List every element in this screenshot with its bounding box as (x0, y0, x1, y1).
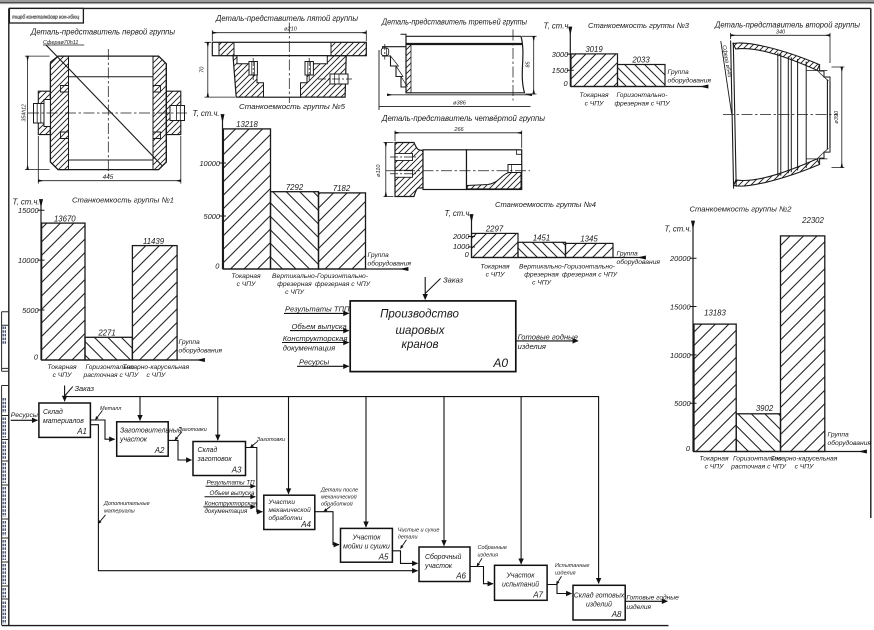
chart1 axes (40, 200, 42, 361)
svg-text:мойки и сушки: мойки и сушки (343, 543, 390, 551)
svg-text:ø386: ø386 (453, 100, 467, 106)
wire: А3 to А4 (Заготовки) (246, 448, 263, 512)
svg-text:Участки: Участки (268, 499, 296, 506)
svg-text:оборудования: оборудования (368, 259, 412, 267)
part3 left hatched band (406, 44, 411, 93)
part4 right section (467, 150, 522, 190)
part1 dimension 445 (38, 136, 181, 184)
chart3 bar 3019 Токарная с ЧПУ (571, 54, 618, 87)
svg-text:2271: 2271 (97, 329, 115, 338)
svg-text:13183: 13183 (704, 308, 726, 317)
svg-text:Группа: Группа (828, 431, 850, 438)
part5 bolt right (305, 62, 313, 76)
svg-text:изделия: изделия (555, 570, 576, 576)
svg-text:фрезерная с ЧПУ: фрезерная с ЧПУ (315, 281, 371, 288)
chart4 tick labels (452, 232, 470, 259)
chart4 x-axis category labels (480, 263, 617, 286)
part4 shaft (423, 150, 467, 190)
part3 dimension ø386 (387, 94, 532, 96)
part1 left flange (hatched) (38, 91, 50, 134)
part1 right bolt (170, 106, 185, 121)
svg-text:Результаты ТПП: Результаты ТПП (285, 305, 350, 314)
box А8: Склад готовых изделий (573, 585, 625, 620)
svg-text:А4: А4 (300, 520, 311, 529)
svg-text:340: 340 (776, 29, 786, 35)
chart5 axes (222, 115, 224, 270)
svg-text:заготовок: заготовок (197, 456, 233, 463)
left margin tiny vertical text marks (3, 327, 5, 625)
svg-text:5000: 5000 (22, 306, 39, 315)
chart5 x-axis category labels (231, 273, 370, 296)
box А4: Участки механической обработки (264, 495, 315, 529)
svg-text:Т, ст.ч.: Т, ст.ч. (665, 224, 692, 233)
svg-text:Склад готовых: Склад готовых (574, 591, 625, 599)
corner stamp box (9, 8, 83, 23)
svg-text:Готовые годные: Готовые годные (518, 332, 578, 341)
chart3 bar 2033 Горизонтально-фрезерная с ЧПУ (618, 65, 666, 87)
svg-text:20000: 20000 (669, 254, 691, 263)
svg-text:Станкоемкость группы №1: Станкоемкость группы №1 (72, 195, 174, 204)
svg-text:Токарная: Токарная (579, 92, 609, 99)
svg-text:Заказ: Заказ (443, 276, 464, 285)
part1 inner cavity lines (69, 77, 154, 160)
wire: drop into А7 (520, 397, 522, 564)
svg-text:Ресурсы: Ресурсы (299, 358, 330, 367)
chart4 bar 1345 Горизонтально-фрезерная с ЧПУ (566, 243, 614, 257)
svg-text:фрезерная: фрезерная (524, 271, 559, 278)
wire: Объем выпуска into А4 bundle (205, 496, 256, 498)
svg-text:Объем выпуска: Объем выпуска (210, 490, 256, 497)
svg-text:10000: 10000 (18, 256, 39, 265)
part3 left bolt (381, 48, 388, 56)
svg-text:70: 70 (199, 66, 205, 73)
part1 small top tabs (61, 86, 69, 139)
svg-text:с ЧПУ: с ЧПУ (486, 271, 506, 278)
svg-text:13218: 13218 (236, 120, 258, 129)
svg-text:Ресурсы: Ресурсы (11, 412, 38, 419)
svg-text:изделия: изделия (478, 552, 499, 558)
part5 body (hatched trapezoid) (233, 56, 346, 97)
svg-text:Участок: Участок (352, 535, 382, 542)
svg-text:тшрб конеталкйовр кон-хбюц: тшрб конеталкйовр кон-хбюц (13, 14, 81, 21)
svg-text:Заказ: Заказ (75, 384, 95, 393)
wire: А8 output Готовые годные изделия (625, 600, 667, 602)
svg-text:А6: А6 (455, 571, 466, 580)
svg-text:Т, ст.ч.: Т, ст.ч. (193, 109, 220, 118)
A0 input arrow: Результаты ТПП (284, 312, 349, 314)
A0 control arrow: Заказ (424, 277, 426, 299)
svg-text:Готовые годные: Готовые годные (626, 594, 679, 602)
part2 sphere leader line (721, 41, 732, 113)
part2 right top steps (820, 65, 830, 81)
svg-text:445: 445 (103, 174, 114, 181)
svg-text:15000: 15000 (18, 206, 39, 215)
svg-text:оборудования: оборудования (668, 77, 712, 85)
part2 dimension 340 (731, 33, 830, 63)
svg-text:механической: механической (321, 494, 357, 501)
wire: drop into А2 (139, 397, 141, 421)
svg-text:с ЧПУ: с ЧПУ (146, 372, 166, 379)
part4 dimension 266 (395, 131, 522, 149)
A0 output arrow: Готовые годные изделия (516, 340, 578, 342)
svg-text:с ЧПУ: с ЧПУ (795, 464, 815, 471)
box А5: Участок мойки и сушки (341, 528, 393, 562)
svg-text:15000: 15000 (670, 302, 691, 311)
part1 right flange (hatched) (166, 91, 181, 134)
svg-text:расточная с ЧПУ: расточная с ЧПУ (82, 372, 139, 379)
svg-text:Деталь-представитель первой гр: Деталь-представитель первой группы (30, 28, 175, 37)
svg-text:изделия: изделия (626, 603, 651, 611)
part1 centerlines (28, 49, 188, 177)
svg-text:10000: 10000 (670, 351, 691, 360)
svg-text:детали: детали (398, 535, 418, 541)
part2 left face double line (731, 41, 737, 189)
part4 flange white slots (395, 154, 413, 161)
chart5 bar 7292 Вертикально-фрезерная с ЧПУ (271, 192, 319, 269)
svg-text:10000: 10000 (199, 159, 220, 168)
part5 centerlines (253, 23, 352, 104)
svg-text:3019: 3019 (585, 45, 603, 54)
chart4 bar 2297 Токарная с ЧПУ (472, 233, 519, 257)
svg-text:Испытанные: Испытанные (555, 563, 590, 569)
svg-text:354h12: 354h12 (21, 104, 27, 121)
left margin column boxes (lower group) (2, 386, 9, 626)
wire: drop into А5 (365, 397, 367, 527)
svg-text:документация: документация (205, 508, 248, 515)
wire: А5 to А6 (Чистые и сухие детали) (392, 551, 417, 564)
A0 input arrow: Ресурсы (297, 365, 349, 367)
svg-text:Детали после: Детали после (320, 488, 358, 494)
svg-text:Склад: Склад (198, 446, 218, 454)
part3 tube body (406, 36, 525, 93)
box А2: Заготовительный участок (117, 422, 169, 456)
svg-text:Т, ст.ч.: Т, ст.ч. (544, 22, 571, 31)
svg-text:расточная с ЧПУ: расточная с ЧПУ (730, 464, 787, 471)
svg-text:оборудования: оборудования (828, 439, 872, 447)
svg-text:ø210: ø210 (284, 26, 298, 32)
svg-text:Деталь-представитель четвёртой: Деталь-представитель четвёртой группы (381, 114, 545, 123)
svg-text:Заготовки: Заготовки (179, 427, 207, 433)
chart2 tick labels (669, 254, 691, 453)
svg-text:Дополнительные: Дополнительные (103, 501, 150, 507)
svg-text:испытаний: испытаний (502, 580, 539, 588)
svg-text:Деталь-представитель третьей г: Деталь-представитель третьей группы (381, 17, 527, 26)
chart1 bar 2271 Горизонтально-расточная с ЧПУ (85, 337, 132, 360)
part4 right bolt (508, 165, 522, 173)
svg-text:с ЧПУ: с ЧПУ (285, 289, 305, 296)
svg-text:А5: А5 (378, 552, 389, 561)
box А3: Склад заготовок (193, 442, 246, 476)
svg-text:Деталь-представитель пятой гру: Деталь-представитель пятой группы (215, 14, 358, 23)
A0 input arrow: Конструкторская документация (282, 342, 349, 344)
svg-text:13670: 13670 (54, 214, 76, 223)
part5 bolt left (249, 62, 257, 76)
chart4 axes (471, 215, 473, 258)
svg-text:3000: 3000 (552, 50, 569, 59)
chart2 bar 3902 Горизонтально-расточная с ЧПУ (736, 414, 780, 452)
svg-text:обработкой: обработкой (321, 501, 353, 508)
wire: drop into А3 (217, 397, 219, 441)
svg-text:кранов: кранов (402, 339, 439, 351)
svg-text:ø110: ø110 (376, 164, 382, 177)
svg-text:механической: механической (269, 506, 312, 514)
svg-text:1345: 1345 (580, 235, 598, 244)
part1 sphere diagonal (46, 45, 162, 166)
wire: А2 to А3 (Заготовки) (168, 440, 191, 460)
part2 bottom hatched band (734, 159, 820, 186)
svg-text:1500: 1500 (552, 66, 569, 75)
chart2 axes (692, 221, 694, 452)
A0 input arrow: Объем выпуска (290, 330, 349, 332)
box А7: Участок испытаний (495, 565, 548, 600)
wire: А1 to А2 (Металл) (90, 420, 114, 439)
svg-text:Станкоемкость группы №4: Станкоемкость группы №4 (495, 200, 596, 209)
svg-text:5000: 5000 (204, 212, 221, 221)
wire: А7 to А8 (Испытанные изделия) (547, 585, 571, 594)
svg-text:Станкоемкость группы №5: Станкоемкость группы №5 (239, 102, 346, 111)
wire: drop into А6 (443, 397, 445, 546)
svg-text:5000: 5000 (674, 399, 691, 408)
svg-text:Конструкторская: Конструкторская (283, 334, 348, 343)
svg-text:Т, ст.ч.: Т, ст.ч. (445, 209, 472, 218)
wire: Ресурсы into А1 (11, 419, 38, 421)
chart2 bar 22302 Токарно-карусельная с ЧПУ (781, 236, 825, 452)
svg-text:Чистые и сухие: Чистые и сухие (398, 528, 440, 534)
part4 dimension ø110 (384, 143, 394, 197)
svg-text:Участок: Участок (506, 572, 536, 579)
svg-text:1451: 1451 (533, 234, 550, 243)
svg-text:А8: А8 (611, 610, 622, 619)
box А6: Сборочный участок (419, 547, 470, 582)
svg-text:Горизонтально-: Горизонтально- (617, 92, 669, 99)
wire: Результаты ТП into А4 bundle (206, 485, 256, 487)
part3 thick top line (406, 43, 522, 45)
svg-text:Токарная: Токарная (231, 273, 261, 280)
svg-text:Токарно-карусельная: Токарно-карусельная (123, 364, 190, 371)
chart2 x-axis category labels (699, 455, 837, 470)
box А1: Склад материалов (39, 403, 91, 437)
wire: Конструкторская документация into А4 bundle (204, 506, 256, 508)
part5 top flange band (212, 42, 366, 55)
svg-text:Производство: Производство (380, 308, 459, 320)
chart1 tick labels (18, 206, 39, 362)
part1 right hatched wall (153, 56, 166, 170)
svg-text:Токарная: Токарная (480, 263, 510, 270)
svg-text:266: 266 (453, 127, 464, 133)
chart1 bar 11439 Токарно-карусельная с ЧПУ (132, 246, 177, 360)
part5 side bolt (330, 74, 348, 84)
part5 dimension 70 (205, 42, 236, 97)
svg-text:фрезерная с ЧПУ: фрезерная с ЧПУ (614, 100, 670, 107)
svg-text:изделия: изделия (518, 342, 546, 351)
svg-text:А1: А1 (76, 427, 87, 436)
svg-text:7182: 7182 (333, 184, 351, 193)
svg-text:Токарная: Токарная (47, 364, 77, 371)
chart3 x-axis category labels (579, 92, 670, 107)
part2 top hatched band (733, 43, 820, 70)
wire: А6 to А7 (Собранные изделия) (470, 567, 493, 584)
svg-text:Заготовки: Заготовки (257, 437, 285, 443)
svg-text:Токарная: Токарная (699, 455, 729, 462)
svg-text:2000: 2000 (452, 232, 470, 241)
svg-text:Вертикально-: Вертикально- (272, 273, 318, 280)
svg-text:Группа: Группа (617, 250, 639, 257)
svg-text:с ЧПУ: с ЧПУ (585, 100, 605, 107)
svg-text:А3: А3 (231, 465, 242, 474)
part2 right bottom steps (820, 148, 830, 164)
part1 left hatched wall (50, 56, 68, 170)
part3 dimension 85 (522, 36, 537, 94)
svg-text:А0: А0 (492, 356, 508, 370)
chart5 bar 13218 Токарная с ЧПУ (223, 129, 270, 269)
svg-text:Горизонтально-: Горизонтально- (564, 263, 616, 270)
top window gray bar (0, 0, 874, 2)
svg-text:Группа: Группа (179, 339, 201, 346)
svg-text:Металл: Металл (100, 406, 121, 412)
part2 dimension ø390 (832, 67, 845, 168)
svg-text:3902: 3902 (756, 404, 774, 413)
svg-text:Деталь-представитель второй гр: Деталь-представитель второй группы (714, 21, 860, 30)
part4 left flange hatched (395, 143, 423, 197)
svg-text:Группа: Группа (668, 69, 690, 76)
svg-text:с ЧПУ: с ЧПУ (532, 280, 552, 287)
chart1 x-axis category labels (47, 364, 189, 379)
svg-text:Станкоемкость группы №2: Станкоемкость группы №2 (690, 204, 793, 213)
svg-text:с ЧПУ: с ЧПУ (237, 281, 257, 288)
part1 body outline (50, 56, 166, 170)
svg-text:Объем выпуска: Объем выпуска (292, 322, 347, 331)
svg-text:Заготовительный: Заготовительный (120, 426, 182, 434)
svg-text:Результаты ТП: Результаты ТП (207, 480, 256, 487)
svg-text:85: 85 (525, 61, 531, 68)
left margin column boxes (upper group) (2, 312, 9, 372)
svg-text:с ЧПУ: с ЧПУ (53, 372, 73, 379)
wire: А1 lower output down to А6 (Дополнительные материалы) (90, 425, 417, 571)
svg-text:2033: 2033 (631, 56, 650, 65)
wire: Заказ main distribution line (64, 386, 66, 402)
part5 dimension ø210 (212, 30, 366, 41)
svg-text:Токарно-карусельная: Токарно-карусельная (771, 455, 838, 462)
part5 inner cavity (white stepped) (237, 56, 327, 97)
part2 inner grooves (778, 53, 806, 177)
svg-text:7292: 7292 (286, 183, 304, 192)
part2 right face double line (827, 80, 830, 149)
svg-text:А7: А7 (532, 590, 543, 599)
part1 dimension 354h12 (25, 56, 50, 170)
svg-text:оборудования: оборудования (179, 346, 223, 354)
svg-text:фрезерная: фрезерная (277, 281, 312, 288)
wire: drop into А4 (288, 397, 290, 494)
svg-text:изделий: изделий (586, 600, 612, 608)
wire: А4 to А5 (Детали после механической обработкой) (315, 512, 339, 545)
chart5 bar 7182 Горизонтально-фрезерная с ЧПУ (319, 193, 366, 269)
svg-text:Склад: Склад (43, 408, 63, 416)
chart1 bar 13670 Токарная с ЧПУ (42, 223, 85, 360)
part3 centerlines (385, 30, 513, 101)
svg-text:Сборочный: Сборочный (425, 553, 461, 561)
part4 right hatched swoosh (467, 173, 521, 189)
svg-text:11439: 11439 (143, 237, 165, 246)
svg-text:обработки: обработки (269, 514, 303, 522)
svg-text:с ЧПУ: с ЧПУ (705, 464, 725, 471)
svg-text:материалы: материалы (104, 509, 135, 515)
svg-text:А2: А2 (154, 446, 165, 455)
svg-text:шаровых: шаровых (396, 325, 446, 337)
part3 left flange staircase (383, 47, 406, 87)
part2 centerline (723, 114, 838, 116)
svg-text:фрезерная с ЧПУ: фрезерная с ЧПУ (562, 271, 618, 278)
svg-text:Собранные: Собранные (478, 545, 507, 551)
svg-text:материалов: материалов (43, 418, 84, 425)
part3 lower extension line (379, 50, 531, 110)
svg-text:Вертикально-: Вертикально- (519, 263, 565, 270)
svg-text:документация: документация (283, 344, 336, 353)
svg-text:ø390: ø390 (834, 110, 840, 124)
chart3 tick labels (552, 50, 569, 88)
svg-text:Группа: Группа (368, 252, 390, 259)
svg-text:Станкоемкость группы №3: Станкоемкость группы №3 (588, 21, 690, 30)
svg-text:2297: 2297 (485, 225, 504, 234)
svg-text:участок: участок (119, 436, 148, 443)
svg-text:Горизонтально-: Горизонтально- (317, 273, 369, 280)
svg-text:оборудования: оборудования (617, 258, 661, 266)
chart4 bar 1451 Вертикально-фрезерная с ЧПУ (518, 242, 566, 257)
svg-text:22302: 22302 (801, 216, 824, 225)
part4 centerlines (386, 157, 531, 174)
chart2 bar 13183 Токарная с ЧПУ (694, 324, 736, 451)
chart5 tick labels (199, 159, 220, 271)
svg-text:участок: участок (424, 563, 453, 570)
part1 left bolt (34, 104, 45, 124)
svg-text:Конструкторская: Конструкторская (205, 500, 258, 507)
chart3 axes (569, 27, 571, 87)
